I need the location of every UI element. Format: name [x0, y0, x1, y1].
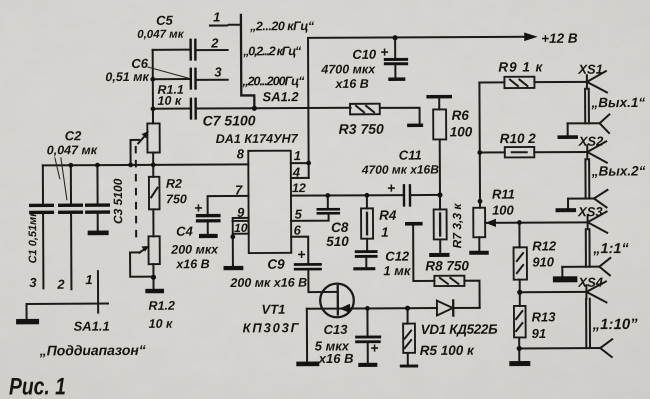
svg-text:VD1 КД522Б: VD1 КД522Б [421, 322, 499, 337]
svg-text:C7 5100: C7 5100 [203, 112, 256, 128]
svg-text:C12: C12 [385, 249, 410, 264]
svg-text:1 мк: 1 мк [383, 263, 412, 278]
svg-text:1: 1 [85, 272, 92, 287]
svg-text:4: 4 [292, 165, 301, 180]
svg-text:„2...20 кГц“: „2...20 кГц“ [249, 19, 315, 33]
svg-text:„1:1“: „1:1“ [592, 241, 629, 257]
svg-text:х16 В: х16 В [334, 77, 368, 91]
svg-text:9: 9 [237, 205, 245, 220]
svg-text:DA1 К174УН7: DA1 К174УН7 [216, 132, 299, 146]
svg-text:510: 510 [326, 234, 349, 249]
svg-text:„20...200Гц“: „20...200Гц“ [241, 74, 305, 88]
svg-text:0,047 мк: 0,047 мк [137, 29, 185, 41]
svg-text:Рис. 1: Рис. 1 [9, 373, 66, 399]
svg-text:10 к: 10 к [149, 317, 173, 331]
svg-text:C5: C5 [156, 13, 173, 28]
svg-text:+: + [370, 340, 378, 356]
svg-text:2: 2 [56, 277, 65, 292]
svg-text:4700 мкх: 4700 мкх [320, 62, 376, 76]
svg-text:C13: C13 [324, 322, 349, 337]
svg-text:C3 5100: C3 5100 [111, 178, 125, 224]
svg-text:R13: R13 [532, 309, 557, 324]
svg-text:6: 6 [294, 223, 302, 238]
svg-text:C4: C4 [176, 224, 193, 239]
svg-text:C2: C2 [65, 128, 82, 143]
svg-text:100: 100 [492, 203, 515, 218]
svg-text:C10: C10 [352, 47, 377, 62]
svg-text:R6: R6 [452, 108, 470, 123]
svg-text:„Вых.2“: „Вых.2“ [591, 163, 646, 178]
svg-text:R7 3,3 к: R7 3,3 к [450, 203, 464, 249]
svg-text:12: 12 [292, 181, 306, 195]
svg-text:„Поддиапазон“: „Поддиапазон“ [39, 342, 146, 359]
svg-text:R4: R4 [379, 208, 397, 223]
svg-text:+: + [297, 246, 305, 262]
svg-text:10 к: 10 к [157, 94, 181, 108]
svg-text:R8 750: R8 750 [425, 258, 469, 273]
svg-text:0,047 мк: 0,047 мк [47, 143, 98, 157]
svg-text:C6: C6 [131, 56, 148, 71]
svg-text:910: 910 [532, 254, 555, 269]
svg-text:R11: R11 [492, 187, 515, 202]
svg-text:„Вых.1“: „Вых.1“ [590, 95, 645, 110]
svg-text:XS3: XS3 [577, 204, 603, 219]
svg-text:200 мк х16 В: 200 мк х16 В [229, 276, 307, 290]
svg-text:„0,2...2 кГц“: „0,2...2 кГц“ [242, 44, 302, 58]
svg-text:10: 10 [234, 221, 248, 235]
svg-text:х16 В: х16 В [318, 351, 354, 366]
svg-text:+: + [380, 44, 388, 60]
svg-text:VT1: VT1 [261, 302, 285, 317]
svg-text:XS1: XS1 [577, 62, 603, 77]
svg-text:2: 2 [210, 36, 219, 51]
svg-text:R1.2: R1.2 [148, 299, 175, 313]
svg-text:1: 1 [213, 10, 220, 25]
svg-text:+12 В: +12 В [541, 31, 578, 46]
svg-text:100: 100 [450, 124, 473, 139]
svg-text:SA1.1: SA1.1 [74, 319, 110, 334]
svg-text:SA1.2: SA1.2 [262, 89, 299, 104]
svg-text:5: 5 [295, 207, 303, 222]
svg-text:91: 91 [532, 326, 547, 341]
svg-text:R5 100 к: R5 100 к [420, 343, 475, 358]
svg-text:C11: C11 [399, 148, 422, 163]
svg-text:XS2: XS2 [578, 134, 604, 149]
svg-text:0,51 мк: 0,51 мк [105, 70, 149, 84]
svg-text:C8: C8 [331, 220, 349, 235]
svg-text:х16 В: х16 В [175, 257, 209, 271]
svg-text:XS4: XS4 [577, 275, 603, 290]
svg-text:1: 1 [381, 225, 389, 240]
svg-text:200 мкх: 200 мкх [170, 243, 219, 257]
svg-text:8: 8 [237, 146, 245, 161]
svg-text:1: 1 [294, 148, 301, 163]
svg-text:R9 1 к: R9 1 к [498, 59, 543, 74]
svg-text:+: + [387, 180, 395, 196]
svg-text:R2: R2 [166, 177, 182, 191]
svg-text:R3 750: R3 750 [339, 121, 384, 137]
svg-text:3: 3 [214, 65, 222, 80]
svg-text:+: + [194, 200, 202, 216]
svg-text:4700 мк х16В: 4700 мк х16В [361, 162, 439, 176]
svg-text:R12: R12 [532, 238, 557, 253]
svg-text:R10 2: R10 2 [500, 131, 537, 146]
svg-text:7: 7 [235, 182, 243, 197]
svg-text:C1 0,51мк: C1 0,51мк [27, 210, 39, 264]
svg-text:3: 3 [29, 275, 37, 290]
svg-text:C9: C9 [267, 257, 285, 272]
svg-text:„1:10”: „1:10” [592, 316, 639, 333]
svg-text:750: 750 [166, 192, 187, 206]
